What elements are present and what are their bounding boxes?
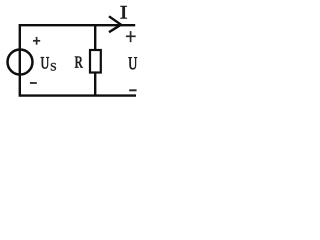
label R	[75, 56, 83, 67]
wire loop: top wire, left wire, bottom wire	[20, 25, 136, 95]
label US: letter U	[41, 57, 49, 68]
resistor R lead wire	[94, 25, 96, 95]
node + of right port	[126, 31, 136, 42]
current arrow I on top wire	[109, 16, 121, 32]
resistor R body	[90, 50, 101, 73]
node - of right port	[129, 89, 136, 91]
label I	[120, 6, 126, 19]
label U (port voltage)	[129, 57, 138, 69]
voltage source US (circle with line through)	[8, 50, 33, 75]
label US: subscript S	[51, 63, 56, 71]
polarity - of source	[30, 82, 37, 84]
polarity + of source	[33, 37, 40, 45]
